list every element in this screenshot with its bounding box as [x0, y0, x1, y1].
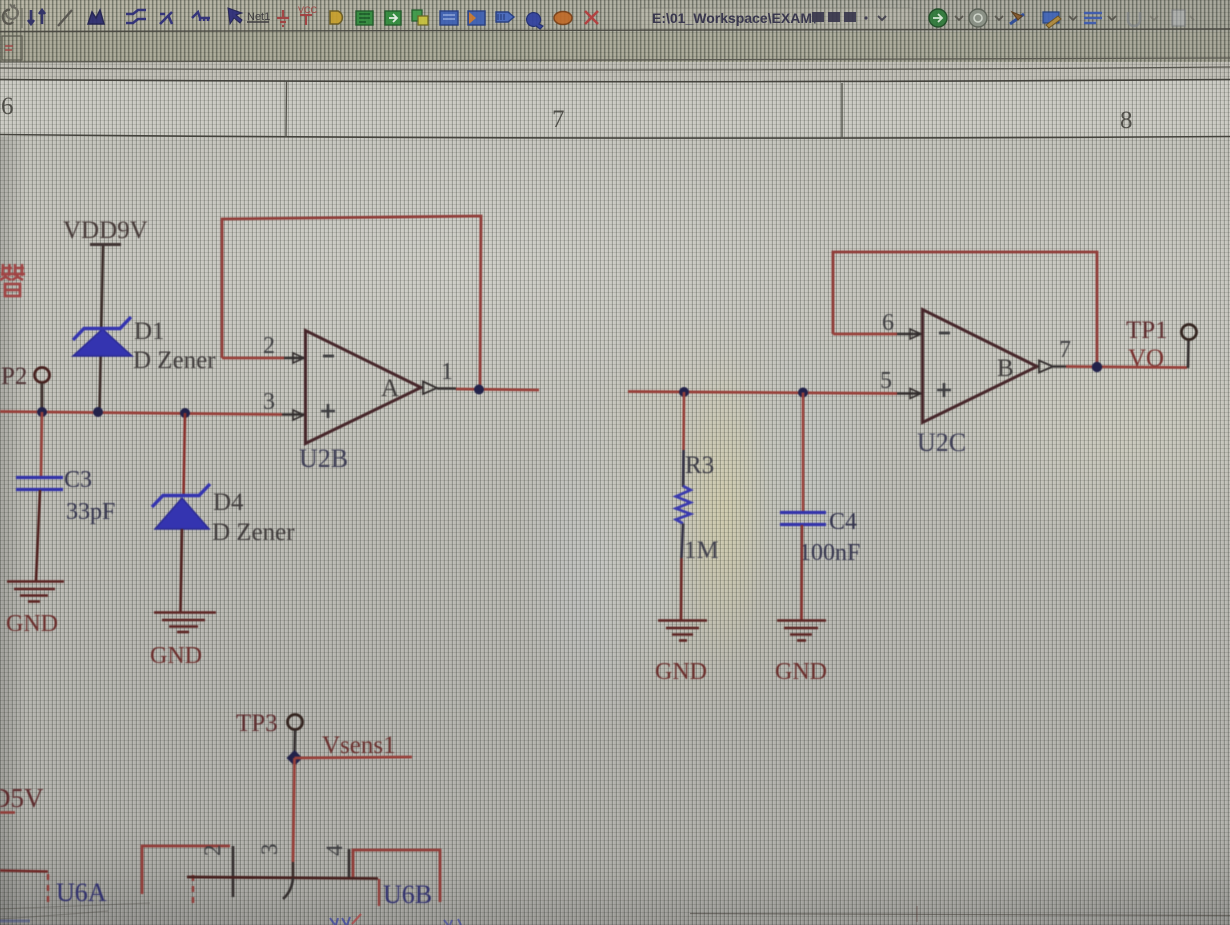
svg-text:33pF: 33pF	[66, 499, 115, 525]
toolbar icon: gray sphere	[969, 9, 1003, 27]
svg-text:C4: C4	[829, 509, 857, 535]
toolbar icon: cursor arrow	[228, 8, 242, 24]
toolbar icon: list lines	[1084, 13, 1116, 23]
svg-text:2: 2	[263, 333, 275, 359]
U6B red stub	[378, 879, 380, 906]
pin 2 vertical lead	[232, 846, 235, 897]
wire into pin 2	[222, 357, 284, 360]
dashed red stub mid	[192, 875, 194, 903]
svg-text:1: 1	[441, 359, 453, 385]
svg-text:U6B: U6B	[383, 880, 432, 909]
capacitor C4	[780, 513, 826, 525]
wire into pin 6	[833, 333, 897, 336]
toolbar icon: line tool	[58, 10, 72, 26]
svg-text:C3: C3	[64, 467, 92, 493]
switch lever	[283, 878, 293, 899]
wire D4 branch	[184, 413, 186, 496]
U6 red bracket left	[142, 846, 230, 894]
ruler bottom line	[0, 135, 1230, 139]
svg-text:3: 3	[263, 389, 275, 415]
wire C4 top	[802, 393, 805, 513]
switch common rail	[187, 877, 378, 879]
toolbar icon: vcc power port	[298, 5, 318, 25]
svg-text:D Zener: D Zener	[133, 347, 216, 374]
window inner edge line	[0, 67, 1230, 70]
capacitor C3	[16, 478, 63, 490]
resistor R3 squiggle	[676, 486, 691, 524]
test point TP1 stem	[1187, 340, 1190, 368]
test point TP3 circle	[288, 715, 303, 730]
U2B minus sign	[323, 355, 334, 358]
U2B output lead	[437, 387, 456, 389]
bottom faint tick	[916, 906, 918, 922]
wire U2C output to TP1	[1066, 367, 1187, 368]
window edge glyph top-left	[3, 10, 13, 24]
junction dot at U2B output	[474, 385, 484, 395]
tabband bottom line	[0, 58, 1230, 62]
U2C minus sign	[939, 332, 950, 335]
svg-text:A: A	[381, 375, 399, 402]
svg-text:D5V: D5V	[0, 783, 44, 813]
svg-text:VDD9V: VDD9V	[63, 217, 148, 244]
svg-text:100nF: 100nF	[799, 540, 860, 566]
toolbar icon: bus entry	[160, 12, 172, 24]
toolbar icon: faint doc	[1172, 10, 1194, 26]
U6A left dashed stub	[47, 874, 49, 902]
U2B plus sign	[321, 404, 335, 418]
sheet top border line	[0, 80, 1230, 82]
wire R3 to ground	[680, 558, 683, 620]
op-amp U2C triangle	[923, 310, 1038, 423]
wire C3 to ground	[36, 490, 40, 581]
wire mid rail	[628, 392, 897, 394]
test point TP3 stem	[293, 730, 296, 753]
toolbar group separator	[21, 8, 23, 28]
wire TP3 lower dark	[292, 862, 295, 877]
svg-text:GND: GND	[6, 611, 58, 637]
ground symbol under R3	[658, 621, 707, 641]
R3 top lead	[682, 450, 685, 487]
wire VDD9V stem	[100, 246, 104, 411]
svg-text:U2C: U2C	[917, 428, 966, 457]
toolbar icon: green sphere nav	[929, 9, 963, 27]
toolbar icon: no-erc marker	[554, 12, 572, 25]
junction dot at U2C output	[1092, 362, 1102, 372]
wire Vsens1	[295, 757, 413, 758]
bottom blue mark right	[444, 919, 461, 925]
svg-text:1M: 1M	[684, 537, 719, 564]
pin 4 vertical lead	[348, 849, 351, 877]
wire TP3 down	[293, 758, 295, 862]
power port VDD9V bar symbol	[90, 243, 121, 246]
svg-text:GND: GND	[150, 643, 202, 669]
toolbar icon: part (gate)	[330, 11, 342, 24]
svg-text:2: 2	[200, 845, 225, 857]
pin 2 lead	[284, 357, 305, 359]
wire C3 branch	[41, 412, 42, 477]
wire C4 to ground	[800, 525, 803, 620]
svg-text:4: 4	[322, 844, 347, 856]
bottom red diagonal mark	[352, 914, 361, 924]
junction at Vsens1	[287, 750, 303, 766]
toolbar icon: polyline	[192, 12, 210, 21]
toolbar icon: red X	[585, 11, 598, 24]
svg-text:D1: D1	[134, 318, 165, 345]
net label 替 (red CJK char)	[0, 264, 25, 296]
toolbar icon: sheet symbol blue	[440, 11, 458, 25]
toolbar icon: port	[496, 12, 514, 22]
toolbar icon: net label	[247, 11, 270, 23]
svg-text:TP1: TP1	[1126, 317, 1168, 344]
bottom faint sheet line	[690, 914, 1230, 916]
pin 6 arrow	[910, 329, 921, 339]
svg-text:R3: R3	[685, 452, 714, 479]
D5V underline	[0, 811, 15, 814]
toolbar icon: cross probe	[1010, 12, 1024, 24]
connector P2 pin circle	[35, 368, 50, 383]
toolbar icon: filter pencil	[1043, 12, 1077, 28]
junction dot at D4 branch	[180, 408, 190, 418]
junction dot at VDD branch	[93, 407, 103, 417]
sheet tab	[2, 36, 22, 60]
toolbar icon: part with lock	[412, 10, 428, 25]
ruler zone divider left	[285, 82, 288, 137]
pin 5 arrow	[910, 389, 921, 399]
svg-text:D Zener: D Zener	[212, 519, 295, 546]
junction dot at R3	[679, 387, 689, 397]
bottom blue smudge left	[0, 920, 30, 923]
zener diode D1	[73, 317, 132, 356]
junction dot at P2	[37, 407, 47, 417]
toolbar icon: probe directive	[527, 13, 543, 29]
svg-text:Vsens1: Vsens1	[322, 732, 396, 759]
toolbar icon: green ic part	[356, 11, 373, 25]
toolbar icon: undo arrow	[6, 4, 18, 19]
pin 3 arrow	[293, 410, 304, 420]
bottom blue mark mid	[330, 917, 350, 925]
zener diode D4	[152, 484, 210, 529]
wire P2 stem	[41, 383, 44, 411]
svg-text:5: 5	[880, 368, 892, 394]
ground symbol under C4	[777, 621, 826, 641]
wire D4 to ground	[181, 529, 183, 612]
svg-text:U2B: U2B	[299, 444, 348, 473]
pin 6 lead	[897, 333, 922, 335]
pin 5 lead	[897, 392, 922, 394]
svg-text:P2: P2	[1, 363, 27, 390]
pin 3 lead	[282, 413, 305, 415]
U2B output arrow	[423, 382, 437, 395]
U2C plus sign	[937, 383, 951, 397]
op-amp U2B triangle	[306, 331, 422, 444]
toolbar icon: bus tool	[88, 10, 104, 24]
ruler zone divider right	[841, 83, 843, 138]
svg-text:GND: GND	[655, 659, 707, 685]
toolbar icon: sheet entry blue/orange	[468, 11, 485, 25]
svg-text:GND: GND	[775, 659, 827, 685]
toolbar icon: sheet entry green	[385, 11, 401, 25]
svg-text:3: 3	[257, 844, 282, 856]
svg-text:6: 6	[882, 310, 894, 336]
wire U2C feedback loop	[833, 252, 1097, 366]
svg-text:B: B	[997, 355, 1014, 382]
pin 2 arrow	[293, 353, 304, 363]
svg-text:7: 7	[1059, 337, 1071, 363]
wire R3 top	[682, 392, 685, 450]
U2C output arrow	[1039, 361, 1053, 373]
test point TP1 circle	[1182, 325, 1197, 340]
wire main horizontal net	[0, 412, 282, 415]
wire U2B output	[456, 389, 539, 390]
toolbar icon: wiring cursors pair	[28, 10, 45, 24]
toolbar separator line	[0, 29, 1230, 32]
R3 bottom lead	[682, 524, 684, 559]
toolbar icon: gnd power port	[277, 10, 289, 26]
path dropdown box	[640, 8, 912, 29]
svg-text:U6A: U6A	[56, 878, 107, 907]
ground symbol under C3	[7, 582, 64, 602]
svg-text:TP3: TP3	[236, 710, 278, 737]
toolbar icon: faint magnet	[1128, 12, 1158, 26]
wire U2B feedback loop	[222, 216, 481, 387]
svg-text:D4: D4	[213, 489, 244, 516]
U6A left pin line	[0, 871, 48, 872]
U6 red bracket right	[353, 850, 440, 902]
svg-text:VO: VO	[1128, 345, 1164, 372]
junction dot at C4	[798, 388, 808, 398]
ground symbol under D4	[154, 613, 216, 633]
bezel curve lines bottom-left	[0, 903, 150, 919]
toolbar icon: place wire zigzags	[126, 10, 146, 23]
U2C output lead	[1053, 365, 1066, 367]
